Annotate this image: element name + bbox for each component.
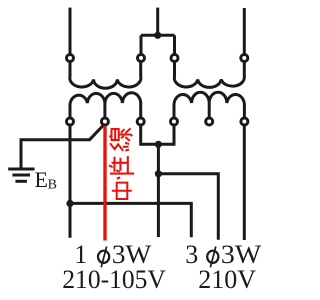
transformer T2 primary winding [174,58,244,87]
text labels (serif) [35,167,262,294]
terminal circle T1 secondary center tap [101,118,108,125]
junction dot u-phase jumper node [66,200,73,207]
wire input line C (right primary feed) [243,8,246,58]
svg-text:E: E [35,167,48,192]
terminal circle T2 secondary center tap [206,118,213,125]
label 中 (kanji, rotated) [112,183,132,199]
svg-text:210-105V: 210-105V [62,265,166,294]
wire w-phase down from T2 right terminal [243,122,246,241]
svg-text:210V: 210V [198,265,256,294]
terminal circle T1 primary right [138,55,145,62]
ground electrode E_B bars [8,169,34,181]
terminal circle T1 secondary right [137,118,144,125]
svg-text:3: 3 [185,240,198,269]
wire v-phase common down [157,144,160,237]
transformer T1 primary winding [70,58,141,88]
wire v-phase jumper to 3-phase output [158,174,218,240]
label phi symbol (three-phase) [207,247,218,268]
transformer T1 secondary winding with center tap [70,93,141,122]
wire u-phase jumper to 3-phase output [70,203,191,237]
terminal circle T2 primary left [171,55,178,62]
terminal circle T2 secondary left [171,118,178,125]
wire branch bar from node to both primary inner terminals [141,35,175,58]
wire input line B (middle primary feed) [156,8,159,36]
svg-text:B: B [48,178,57,193]
transformer T2 secondary winding with center tap [174,92,244,121]
label phi symbol (single-phase) [98,247,109,268]
wire center tap to ground: diagonal [90,125,104,139]
terminal circle T1 primary left [67,55,74,62]
wire secondary u-phase down from T1 left terminal [69,122,72,238]
junction dot v-phase common node [155,141,162,148]
label 線 (kanji, rotated) [109,128,132,150]
wire input line A (left primary feed) [69,8,72,58]
label 性 (kanji, rotated) [109,156,134,178]
wire center tap to ground: horizontal and down [21,140,91,169]
junction dot v-phase jumper node [155,170,162,177]
terminal circle T1 secondary left [67,118,74,125]
terminal circle T2 secondary right [241,118,248,125]
wire T1 right to T2 left common bar [141,122,174,145]
terminal circle T2 primary right [241,55,248,62]
junction dot primary branch node [154,32,161,39]
neutral line (red) from center tap to output [103,126,106,241]
